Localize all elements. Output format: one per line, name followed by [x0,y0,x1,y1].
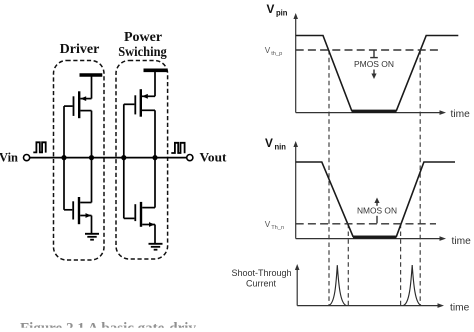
VDD bar (power switching) [144,70,168,96]
shoot-through current spike 2 [403,265,421,305]
svg-text:Vout: Vout [200,151,228,165]
graph2 y-axis [293,141,298,239]
graph3 y-axis [295,264,300,306]
label Vpin [267,2,288,18]
driver stage dashed box [54,61,105,261]
pmos M3 (power switching) [124,89,155,117]
graph2 Vnin waveform [296,162,455,237]
pmos M1 (driver) [64,91,92,118]
svg-text:Driver: Driver [60,42,100,57]
junction node power gate [121,155,126,160]
junction node power output [152,155,157,160]
pulse symbol at Vin [33,142,45,152]
svg-text:Vin: Vin [0,151,18,165]
VDD bar (driver) [80,75,103,99]
power switching stage dashed box [116,61,168,260]
graph2 time label [452,236,472,247]
PMOS ON marker [354,51,394,80]
graph1 threshold dashed line Vth,p [296,49,442,51]
graph3 time label [450,302,470,313]
NMOS ON marker [357,198,397,224]
terminal Vout [187,155,193,161]
svg-text:NMOS ON: NMOS ON [357,206,397,216]
svg-text:Current: Current [246,279,277,289]
graph1 y-axis [293,13,298,113]
label Vnin [265,136,286,152]
nmos M4 (power switching) [124,202,155,227]
svg-text:time: time [452,236,472,247]
junction node driver gate [61,155,66,160]
wire driver nmos source to ground [91,216,93,234]
graph2 threshold dashed line Vth,n [296,223,436,225]
label VTh_n [265,220,284,231]
label Power Swiching [118,30,167,60]
wire driver gate column [63,106,65,210]
label Vout [200,151,228,165]
graph2 x-axis [296,236,446,241]
junction node driver output [89,155,94,160]
graph3 x-axis [297,303,444,308]
nmos M2 (driver) [64,197,92,224]
svg-text:V: V [265,136,273,150]
svg-text:Power: Power [124,30,162,45]
vertical dashed line PMOS turn-off [419,50,421,306]
label Vth,p [265,46,282,57]
graph1 x-axis [296,110,446,115]
svg-text:Swiching: Swiching [118,45,167,60]
shoot-through current spike 1 [329,265,346,305]
svg-text:nin: nin [275,142,287,151]
svg-text:V: V [265,220,271,229]
pulse symbol at Vout [171,143,184,153]
ground (driver) [85,234,99,240]
label Vin [0,151,18,165]
ground (power switching) [149,244,163,250]
wire power nmos source to ground [154,225,156,244]
svg-text:V: V [267,2,275,16]
partial caption text (cut off at bottom) [20,321,196,332]
graph1 time label [451,109,471,120]
svg-text:time: time [450,302,470,313]
vertical dashed line NMOS turn-off [347,224,349,306]
svg-text:time: time [451,109,471,120]
svg-text:Shoot-Through: Shoot-Through [231,268,291,278]
svg-text:Th_n: Th_n [271,225,284,231]
graph1 Vpin waveform [296,36,459,112]
vertical dashed line PMOS turn-on [328,50,330,306]
wire driver output column [91,111,93,203]
terminal Vin [24,155,30,161]
label Driver [60,42,100,57]
svg-text:pin: pin [276,8,288,17]
label Shoot-Through Current [231,268,291,289]
svg-text:th_p: th_p [271,51,282,57]
svg-text:PMOS ON: PMOS ON [354,59,394,69]
wire power gate column [123,104,125,218]
vertical dashed line NMOS turn-on [400,224,402,306]
input wire Vin to Vout node [30,157,187,159]
svg-text:V: V [265,46,271,55]
wire power output column [154,110,156,207]
